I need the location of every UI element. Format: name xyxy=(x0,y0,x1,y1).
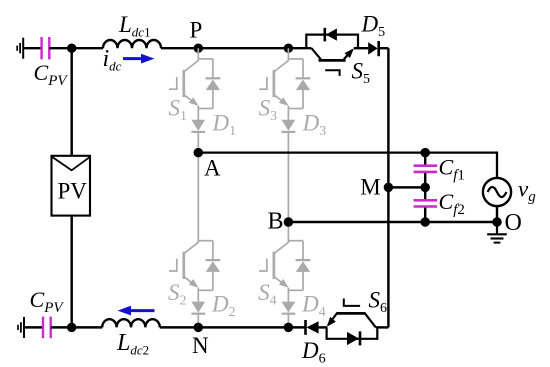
wire junction to D6 xyxy=(288,326,304,328)
wire v_g to node O xyxy=(496,206,498,222)
wire C_PV to PV junction xyxy=(51,326,72,328)
svg-text:P: P xyxy=(190,18,203,43)
node A xyxy=(194,148,204,158)
capacitor C_f1 xyxy=(414,164,438,167)
transistor S2 xyxy=(184,242,198,253)
wire L_dc1 to node P and S5 xyxy=(161,47,312,49)
wire S1 emitter lead xyxy=(197,106,199,120)
svg-text:N: N xyxy=(192,333,209,358)
wire S3 diode-branch top xyxy=(288,58,303,60)
node junction leg3 top xyxy=(284,43,294,53)
wire C_f2 top lead xyxy=(424,187,426,199)
wire S2 emitter lead xyxy=(197,288,199,302)
inductor L_dc2 xyxy=(102,319,160,327)
current arrow on L_dc2 xyxy=(131,309,155,312)
wire junction to L_dc2 xyxy=(72,326,103,328)
node junction leg4 bottom xyxy=(284,323,294,333)
node junction C_f2 bottom xyxy=(420,217,430,227)
diode D5 xyxy=(368,42,378,54)
antiparallel diode of S3 xyxy=(302,59,304,78)
antiparallel diode of S1 xyxy=(212,59,214,78)
wire C_f1 top lead xyxy=(424,153,426,165)
wire S6 to right bus xyxy=(376,326,389,328)
node M xyxy=(384,183,394,193)
transistor S6 xyxy=(328,312,337,324)
diode D6 xyxy=(304,320,307,335)
wire ground to C_PV top xyxy=(23,47,41,49)
wire S4 emitter lead xyxy=(287,288,289,302)
node junction cap midpoint xyxy=(420,183,430,193)
wire D4 bottom lead xyxy=(287,314,289,328)
wire junction to L_dc1 xyxy=(72,47,103,49)
wire S5 diode loop xyxy=(306,35,358,49)
wire D5 to right bus corner xyxy=(379,47,389,49)
node junction PV-bottom xyxy=(67,323,77,333)
wire D6 to S6 xyxy=(319,326,328,328)
transistor S1 xyxy=(184,61,198,72)
wire junction to PV box xyxy=(70,48,72,156)
wire S1 top lead xyxy=(197,48,199,61)
node O xyxy=(492,217,502,227)
node P xyxy=(194,43,204,53)
capacitor C_PV (bottom) xyxy=(42,317,44,339)
diode D2 xyxy=(191,302,205,313)
wire S5 to D5 xyxy=(354,47,368,49)
svg-text:A: A xyxy=(204,156,221,181)
wire right bus vertical xyxy=(387,48,389,327)
node N xyxy=(194,323,204,333)
wire S2 top lead xyxy=(197,153,199,243)
antiparallel diode of S6 xyxy=(327,327,378,338)
node junction C_f1 top xyxy=(420,148,430,158)
wire D3 bottom lead xyxy=(287,132,289,222)
diode D4 xyxy=(282,302,296,313)
wire C_PV to junction xyxy=(49,47,72,49)
wire PV box to bottom junction xyxy=(70,216,72,328)
diode D1 xyxy=(191,120,205,131)
wire D1 bottom lead xyxy=(197,132,199,153)
wire S4 top lead xyxy=(287,222,289,243)
svg-text:PV: PV xyxy=(57,178,87,203)
antiparallel diode of S4 xyxy=(302,241,304,260)
inductor L_dc1 xyxy=(103,40,161,48)
transistor S5 xyxy=(312,48,321,59)
svg-text:O: O xyxy=(505,210,522,236)
capacitor C_PV (top) xyxy=(40,37,42,59)
wire S2 diode-branch top xyxy=(198,240,213,242)
wire N to leg4 junction xyxy=(198,326,288,328)
wire A to grid corner xyxy=(198,153,497,178)
pv panel PV xyxy=(52,156,91,216)
diode D3 xyxy=(282,120,296,131)
node B xyxy=(284,217,294,227)
transistor S4 xyxy=(274,242,288,253)
antiparallel diode of S5 xyxy=(323,28,326,42)
svg-text:B: B xyxy=(268,209,284,235)
antiparallel diode of S2 xyxy=(212,241,214,260)
node junction PV-top xyxy=(67,43,77,53)
ground bottom-left xyxy=(23,317,25,338)
svg-text:M: M xyxy=(360,175,380,200)
transistor S3 xyxy=(274,61,288,72)
wire S3 emitter lead xyxy=(287,106,289,120)
ground node O xyxy=(496,222,498,234)
current arrow i_dc xyxy=(123,57,142,60)
capacitor C_f2 xyxy=(414,199,438,202)
ac source v_g xyxy=(483,178,511,206)
wire C_f2 bottom lead xyxy=(424,208,426,222)
wire S3 top lead xyxy=(287,48,289,61)
wire L_dc2 to node N xyxy=(160,326,199,328)
wire ground to C_PV bottom xyxy=(24,326,43,328)
wire C_f1 bottom lead xyxy=(424,173,426,187)
wire S4 diode-branch top xyxy=(288,240,303,242)
wire B to node O xyxy=(288,221,497,223)
ground top-left xyxy=(22,38,24,59)
wire S1 diode-branch top xyxy=(198,58,213,60)
wire D2 bottom lead xyxy=(197,314,199,328)
wire M to cap midpoint xyxy=(388,186,425,188)
